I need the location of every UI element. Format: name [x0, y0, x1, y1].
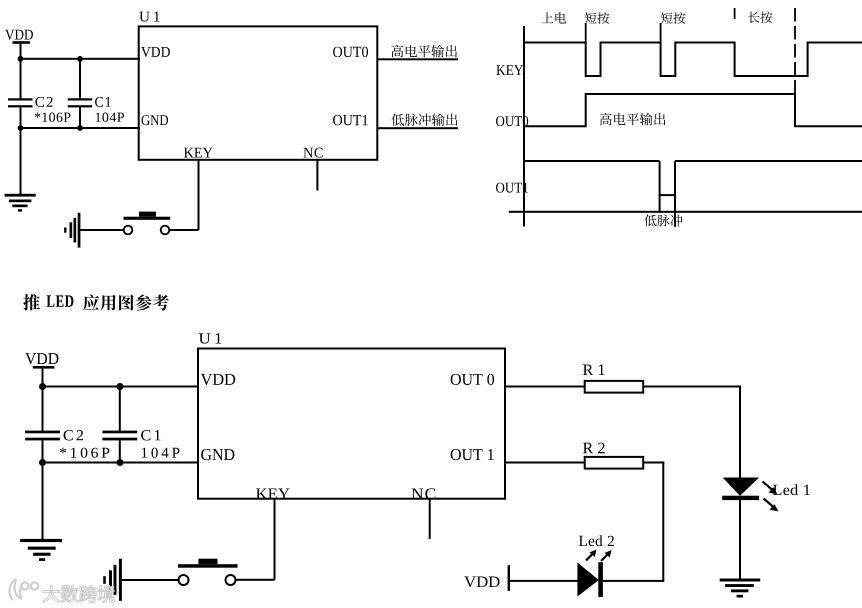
pin NC of U1 (bottom): [412, 488, 436, 499]
waveform OUT0: [524, 94, 862, 126]
guide line short-press 2: [660, 23, 662, 43]
wire switch to ground (bottom): [122, 579, 179, 581]
watermark logo: [9, 579, 38, 600]
resistor R2: [583, 443, 643, 469]
label OUT1 (waveform): [496, 183, 528, 193]
wire OUT1 output (top): [377, 127, 458, 129]
label short-press 2 (duan an): [661, 12, 685, 24]
node junction VDD-C1 (bottom): [117, 383, 124, 390]
wire GND rail to ground (bottom): [42, 463, 44, 540]
label short-press 1 (duan an): [585, 12, 609, 24]
switch S1 push-button (top): [124, 212, 171, 235]
wire top VDD rail (bottom circuit): [43, 386, 199, 388]
wire KEY to switch (top): [169, 229, 198, 231]
label low-pulse-output (top circuit): [391, 113, 457, 126]
op-chip U1 (bottom): [198, 333, 505, 498]
node junction VDD-C2 (bottom): [39, 383, 46, 390]
capacitor C1: [68, 59, 124, 128]
wire OUT0 output (top): [377, 58, 458, 60]
timing time-axis horizontal: [509, 211, 862, 213]
pin VDD of U1 (bottom): [201, 374, 235, 385]
label high-level-output (top circuit): [391, 45, 457, 58]
wire bottom GND rail (bottom circuit): [43, 462, 199, 464]
label high-level-output (waveform): [600, 113, 666, 126]
label Led1: [773, 484, 810, 495]
node junction GND-C1 (bottom): [117, 459, 124, 466]
pin OUT1 of U1 (bottom): [451, 449, 494, 460]
pin VDD of U1 (top): [141, 47, 170, 57]
guide dash-dot long-press right: [794, 8, 796, 94]
wire NC stub (top): [316, 160, 318, 191]
ground (bottom, rotated at switch): [103, 559, 122, 601]
LED D1 (Led1): [722, 478, 759, 580]
node junction GND-C2: [18, 125, 24, 131]
waveform OUT1: [524, 160, 862, 227]
node junction GND-C2 (bottom): [39, 459, 46, 466]
ground (under LED1): [720, 579, 761, 598]
wire VDD flag to rail (bottom): [42, 369, 44, 387]
label long-press (chang an): [748, 11, 772, 23]
label OUT0 (waveform): [496, 116, 528, 126]
LED2 emission arrows: [586, 550, 612, 562]
label power-on (shang dian): [542, 12, 567, 23]
LED D2 (Led2): [577, 562, 602, 597]
ground (top-left): [5, 194, 36, 212]
ground (bottom-left): [20, 539, 62, 561]
ground (top, rotated at switch): [64, 213, 80, 248]
label Led2: [579, 535, 614, 546]
switch S1 push-button (bottom): [178, 559, 238, 585]
capacitor C2: [8, 59, 70, 128]
wire KEY to switch (bottom): [236, 579, 275, 581]
wire GND rail to ground: [20, 128, 22, 195]
title: push LED application diagram reference: [23, 294, 169, 310]
wire KEY stub (bottom): [274, 499, 276, 580]
power pin VDD (LED2 feed): [464, 565, 510, 591]
wire OUT0 to R1: [505, 386, 585, 388]
guide dashes long-press left: [734, 8, 736, 25]
op-chip U1 (top): [139, 12, 378, 160]
wire OUT1 to R2: [505, 462, 585, 464]
wire R1 to LED1: [643, 386, 741, 478]
wire VDD flag to top rail: [20, 44, 22, 59]
node junction GND-C1: [77, 125, 83, 131]
node junction VDD-C1: [77, 56, 83, 62]
pin GND of U1 (top): [142, 115, 169, 125]
wire R2 down to LED2: [643, 462, 664, 582]
capacitor C1 (bottom): [102, 387, 179, 463]
pin NC of U1 (top): [303, 148, 322, 158]
wire top VDD rail: [21, 58, 141, 60]
label KEY (waveform): [496, 65, 523, 75]
guide line short-press 1: [585, 23, 587, 43]
label low-pulse (waveform): [644, 214, 682, 226]
wire switch to ground (top): [79, 229, 124, 231]
pin KEY of U1 (top): [184, 148, 213, 158]
power flag VDD (top-left): [5, 30, 33, 44]
waveform KEY: [524, 43, 862, 77]
resistor R1: [583, 364, 643, 392]
pin KEY of U1 (bottom): [256, 488, 290, 499]
capacitor C2 (bottom): [25, 387, 109, 463]
wire VDD pin to LED2: [509, 580, 578, 582]
LED1 emission arrows: [763, 482, 779, 512]
wire bottom GND rail: [21, 127, 141, 129]
pin OUT1 of U1 (top): [333, 115, 368, 125]
node junction VDD-C2: [18, 56, 24, 62]
pin OUT0 of U1 (bottom): [451, 374, 494, 385]
pin OUT0 of U1 (top): [333, 47, 368, 58]
timing axis vertical: [523, 26, 525, 227]
wire KEY stub (top): [198, 160, 200, 230]
power flag VDD (bottom-left): [25, 353, 58, 368]
wire LED2 to R2 branch: [603, 580, 663, 582]
pin GND of U1 (bottom): [201, 449, 234, 460]
wire NC stub (bottom): [429, 499, 431, 539]
watermark text: [43, 585, 115, 602]
